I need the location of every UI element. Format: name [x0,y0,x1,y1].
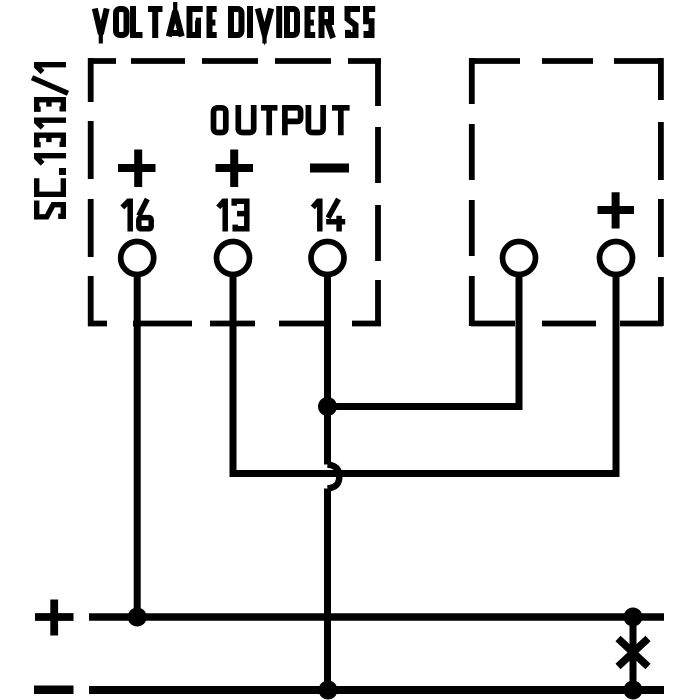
junction dot on wire 14 [318,397,337,416]
+ bus label [35,600,74,636]
link dot on + bus [624,608,643,627]
+ bus bar [89,613,664,621]
label OUTPUT [214,105,350,135]
wire hop (jump over wire 13) [328,465,340,489]
right box right terminal circle [600,242,633,275]
right box: right edge dashes [658,58,664,326]
wire 14: hop down to - bus [324,489,331,691]
link wire between + and - bus [630,617,637,690]
polarity + above terminal 13 [216,150,254,188]
right box: bottom edge dashes [471,321,663,327]
terminal 13 circle [217,242,250,275]
wire terminal 14 down to junction [324,274,331,407]
label SC.1313/1 (rotated) [32,65,68,217]
pin number 14 [313,199,345,232]
junction dot wire14 / - bus [319,681,338,700]
polarity + above right box terminal [598,192,635,228]
voltage divider box: right edge dashes [375,60,381,326]
wire terminal 13 down, right, up to right box right terminal [233,274,616,474]
right box left terminal circle [503,242,536,275]
- bus bar [89,686,664,694]
title VOLTAGE DIVIDER S5 [95,2,375,44]
voltage divider box: top edge dashes [88,58,381,64]
polarity + above terminal 16 [118,150,156,188]
junction dot wire16 / + bus [128,608,147,627]
right box: top edge dashes [469,58,663,64]
sc glyphs [32,65,68,217]
link dot on - bus [624,681,643,700]
pin number 16 [122,199,151,232]
voltage divider box: bottom edge dashes [88,321,381,327]
right box: left edge dashes [469,58,475,326]
voltage divider box: left edge dashes [88,58,94,326]
pin number 13 [218,199,247,232]
wire junction right and up to right box left terminal [328,274,520,407]
wire terminal 16 down to + bus [134,274,141,617]
polarity - above terminal 14 [310,164,349,173]
link X mark [618,639,648,667]
terminal 14 circle [311,242,344,275]
terminal 16 circle [121,242,154,275]
- bus label [34,685,74,694]
wire 14: junction down to hop [324,403,331,465]
